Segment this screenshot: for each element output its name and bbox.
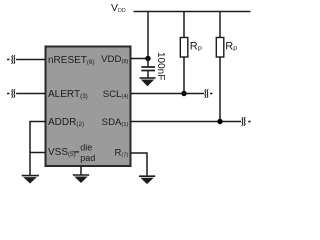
svg-text:die: die	[80, 142, 92, 152]
pin label VSS(5) die pad	[48, 142, 95, 162]
wire R pin to ground	[131, 153, 148, 176]
IC body	[46, 47, 131, 167]
node junction SCL/RP1	[181, 91, 186, 96]
break symbol SCL	[205, 89, 213, 97]
wire capacitor to ground	[147, 71, 149, 78]
VDD rail wire	[134, 11, 251, 13]
wire RP1 to SCL	[183, 57, 185, 94]
ground under capacitor	[140, 78, 156, 86]
wire die pad to ground	[80, 166, 82, 175]
node junction VDD/C1	[145, 56, 150, 61]
wire ADDR	[30, 122, 45, 153]
wire rail to resistor RP1	[183, 12, 185, 38]
svg-text:RP: RP	[190, 41, 202, 53]
resistor RP2	[216, 38, 224, 58]
ground R pin	[139, 176, 155, 184]
break symbol nRESET	[7, 55, 15, 63]
wire nRESET	[16, 59, 45, 61]
wire VDD pin	[131, 58, 149, 60]
svg-text:RP: RP	[225, 41, 237, 53]
break symbol SDA	[242, 117, 251, 125]
node junction SDA/RP2	[217, 119, 222, 124]
wire node to capacitor	[147, 59, 149, 67]
svg-text:VDD: VDD	[111, 2, 126, 14]
ground VSS/ADDR	[22, 176, 39, 184]
ground die pad	[73, 175, 89, 183]
wire rail to VDD pin node	[147, 12, 149, 59]
resistor RP1	[180, 38, 188, 58]
capacitor C1 100nF	[141, 67, 155, 71]
svg-text:100nF: 100nF	[155, 52, 166, 80]
wire rail to resistor RP2	[219, 12, 221, 38]
svg-text:pad: pad	[80, 153, 95, 163]
wire VSS	[30, 153, 45, 176]
wire SDA	[131, 121, 242, 123]
wire SCL	[131, 93, 205, 95]
wire RP2 to SDA	[219, 57, 221, 122]
wire ALERT	[16, 93, 45, 95]
break symbol ALERT	[7, 89, 15, 97]
